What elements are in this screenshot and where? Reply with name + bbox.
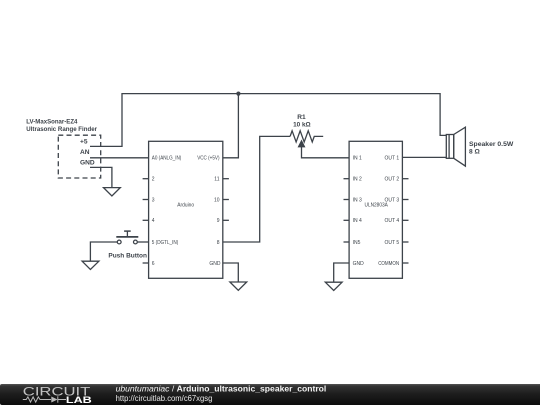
pin label GND (arduino) xyxy=(209,261,221,267)
pin label IN 3 xyxy=(353,197,362,203)
pin label 11 xyxy=(214,177,219,183)
svg-text:LV-MaxSonar-EZ4: LV-MaxSonar-EZ4 xyxy=(26,118,77,125)
circuitlab logo squiggle (resistor + diode) xyxy=(23,396,66,402)
svg-text:5 (DGTL_IN): 5 (DGTL_IN) xyxy=(152,240,179,246)
resistor R1 (potentiometer body) xyxy=(290,131,323,142)
pin label 8 xyxy=(217,240,220,246)
label Speaker 0.5W xyxy=(469,141,514,148)
arduino pin 10 stub xyxy=(223,199,229,201)
pin label 6 xyxy=(152,261,155,267)
pin label 5 (DGTL_IN) xyxy=(152,240,179,246)
pin label IN5 xyxy=(353,240,361,246)
svg-text:VCC (+5V): VCC (+5V) xyxy=(197,156,220,162)
svg-text:8 Ω: 8 Ω xyxy=(469,149,480,156)
pin label IN 2 xyxy=(353,177,362,183)
pin label 9 xyxy=(217,218,220,224)
pin label GND (sonar) xyxy=(80,160,95,167)
footer url line xyxy=(116,393,213,403)
svg-text:http://circuitlab.com/c67xgsg: http://circuitlab.com/c67xgsg xyxy=(116,393,213,403)
arduino pin 6 stub xyxy=(143,262,149,264)
uln OUT5 stub xyxy=(402,241,408,243)
label LV-MaxSonar-EZ4 xyxy=(26,118,77,125)
ground (arduino) xyxy=(230,282,247,290)
node junction top rail / VCC xyxy=(236,92,240,96)
uln IN2 stub xyxy=(344,178,350,180)
IC box ULN2803A xyxy=(349,141,402,278)
svg-text:+5: +5 xyxy=(80,139,88,146)
ground (sonar) xyxy=(104,188,121,196)
svg-text:A0 (ANLG_IN): A0 (ANLG_IN) xyxy=(152,156,182,162)
wire button left to ground xyxy=(90,242,117,261)
svg-text:R1: R1 xyxy=(297,114,306,121)
wire +5 rail riser xyxy=(90,94,122,147)
svg-text:10: 10 xyxy=(214,197,220,203)
pin label VCC (+5V) xyxy=(197,156,220,162)
svg-text:GND: GND xyxy=(353,261,365,267)
svg-text:OUT 1: OUT 1 xyxy=(385,156,400,162)
svg-text:Speaker 0.5W: Speaker 0.5W xyxy=(469,141,514,148)
svg-text:LAB: LAB xyxy=(66,395,93,405)
label ULN2803A xyxy=(365,203,389,209)
pin label OUT 5 xyxy=(385,240,400,246)
uln OUT4 stub xyxy=(402,219,408,221)
wire top rail xyxy=(121,93,440,95)
svg-text:GND: GND xyxy=(80,160,95,167)
svg-text:COMMON: COMMON xyxy=(378,261,399,267)
svg-text:10 kΩ: 10 kΩ xyxy=(293,122,311,129)
uln OUT2 stub xyxy=(402,178,408,180)
svg-text:4: 4 xyxy=(152,218,155,224)
dashed box LV-MaxSonar-EZ4 xyxy=(58,135,100,178)
svg-text:IN 1: IN 1 xyxy=(353,156,362,162)
push button SW xyxy=(116,231,138,244)
svg-text:Push Button: Push Button xyxy=(108,252,147,259)
label R1 xyxy=(297,114,306,121)
svg-text:IN 4: IN 4 xyxy=(353,218,362,224)
uln IN4 stub xyxy=(344,219,350,221)
ground (push button) xyxy=(82,261,99,269)
svg-text:6: 6 xyxy=(152,261,155,267)
wire sonar GND xyxy=(90,167,112,187)
pin label OUT 2 xyxy=(385,177,400,183)
uln IN5 stub xyxy=(344,241,350,243)
IC box Arduino xyxy=(149,141,223,278)
speaker SPKR1 xyxy=(446,127,465,166)
svg-text:IN 2: IN 2 xyxy=(353,177,362,183)
pin label 10 xyxy=(214,197,220,203)
svg-text:3: 3 xyxy=(152,197,155,203)
svg-text:ubuntumaniac / Arduino_ultraso: ubuntumaniac / Arduino_ultrasonic_speake… xyxy=(116,383,327,393)
label Push Button xyxy=(108,252,147,259)
pin label OUT 3 xyxy=(385,197,400,203)
pin label AN xyxy=(80,149,90,156)
svg-text:OUT 4: OUT 4 xyxy=(385,218,400,224)
pin label +5 xyxy=(80,139,88,146)
svg-text:AN: AN xyxy=(80,149,90,156)
pin label IN 4 xyxy=(353,218,362,224)
pin label OUT 1 xyxy=(385,156,400,162)
svg-text:8: 8 xyxy=(217,240,220,246)
arduino pin 4 stub xyxy=(143,219,149,221)
svg-text:IN5: IN5 xyxy=(353,240,361,246)
pin label 4 xyxy=(152,218,155,224)
label 10 kOhm xyxy=(293,122,311,129)
pin label GND (uln) xyxy=(353,261,365,267)
circuitlab logo text LAB xyxy=(66,395,93,405)
wire VCC riser xyxy=(223,94,239,158)
svg-text:2: 2 xyxy=(152,177,155,183)
wire OUT1 to speaker xyxy=(402,156,446,158)
wire uln GND xyxy=(334,263,349,282)
pin label 2 xyxy=(152,177,155,183)
svg-text:Ultrasonic Range Finder: Ultrasonic Range Finder xyxy=(26,126,97,133)
wire button right to pin5 xyxy=(138,241,149,243)
label 8 Ohm xyxy=(469,149,480,156)
label Arduino xyxy=(177,203,194,209)
uln COMMON stub xyxy=(402,262,408,264)
arduino pin 3 stub xyxy=(143,199,149,201)
pin label OUT 4 xyxy=(385,218,400,224)
footer title line xyxy=(116,383,327,393)
svg-text:OUT 2: OUT 2 xyxy=(385,177,400,183)
arduino pin 9 stub xyxy=(223,219,229,221)
arduino pin 2 stub xyxy=(143,178,149,180)
svg-text:GND: GND xyxy=(209,261,221,267)
svg-text:ULN2803A: ULN2803A xyxy=(365,203,389,209)
pin label COMMON xyxy=(378,261,399,267)
wire AN to A0 xyxy=(90,157,149,159)
pin label 3 xyxy=(152,197,155,203)
uln OUT3 stub xyxy=(402,199,408,201)
circuitlab logo text CIRCUIT xyxy=(23,384,91,398)
arduino pin 11 stub xyxy=(223,178,229,180)
svg-text:OUT 5: OUT 5 xyxy=(385,240,400,246)
ground (uln) xyxy=(325,282,342,290)
pin label IN 1 xyxy=(353,156,362,162)
footer bar xyxy=(0,384,540,405)
wire top rail to speaker xyxy=(440,93,446,135)
svg-text:Arduino: Arduino xyxy=(177,203,194,209)
wire arduino GND xyxy=(223,263,239,282)
svg-text:IN 3: IN 3 xyxy=(353,197,362,203)
potentiometer wiper arrow of R1 xyxy=(298,140,349,157)
wire pin8 to R1 left lead xyxy=(223,136,290,242)
svg-text:9: 9 xyxy=(217,218,220,224)
svg-text:11: 11 xyxy=(214,177,219,183)
label Ultrasonic Range Finder xyxy=(26,126,97,133)
pin label A0 (ANLG_IN) xyxy=(152,156,182,162)
uln IN3 stub xyxy=(344,199,350,201)
